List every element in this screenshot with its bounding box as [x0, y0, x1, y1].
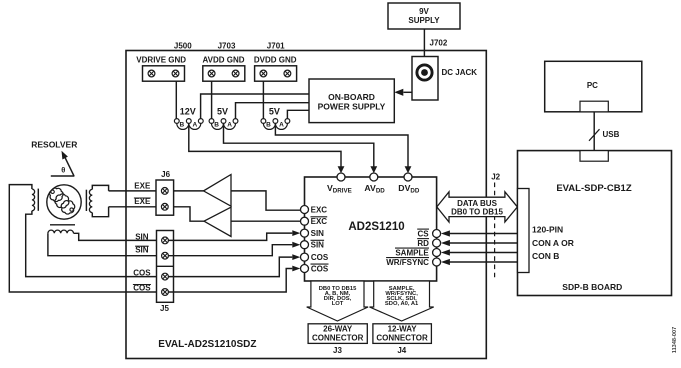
svg-text:J703: J703	[218, 42, 236, 51]
svg-text:A: A	[279, 121, 284, 128]
svg-text:SIN: SIN	[135, 232, 149, 241]
svg-text:EVAL-AD2S1210SDZ: EVAL-AD2S1210SDZ	[158, 339, 256, 350]
svg-text:J4: J4	[397, 346, 406, 355]
svg-text:POWER SUPPLY: POWER SUPPLY	[318, 101, 386, 111]
svg-text:CON A OR: CON A OR	[532, 238, 574, 248]
svg-text:RESOLVER: RESOLVER	[31, 140, 77, 150]
svg-text:A: A	[193, 121, 198, 128]
svg-text:EXC: EXC	[311, 205, 328, 214]
svg-text:θ: θ	[61, 166, 65, 175]
svg-text:COS: COS	[311, 264, 329, 273]
svg-text:AVDD GND: AVDD GND	[202, 56, 244, 65]
svg-text:LOT: LOT	[332, 301, 344, 307]
svg-text:ON-BOARD: ON-BOARD	[328, 92, 375, 102]
svg-text:COS: COS	[311, 253, 329, 262]
svg-text:B: B	[266, 122, 271, 129]
svg-text:SUPPLY: SUPPLY	[408, 16, 440, 25]
svg-text:DATA BUS: DATA BUS	[457, 199, 498, 208]
svg-text:J2: J2	[491, 173, 500, 182]
svg-text:SIN: SIN	[311, 229, 325, 238]
svg-text:CON B: CON B	[532, 251, 559, 261]
svg-text:J5: J5	[160, 304, 169, 313]
svg-text:USB: USB	[603, 130, 620, 139]
svg-text:SIN: SIN	[311, 241, 325, 250]
svg-text:EXE: EXE	[134, 182, 151, 191]
svg-text:CS: CS	[418, 229, 430, 238]
svg-text:B: B	[180, 122, 185, 129]
svg-text:RD: RD	[417, 239, 429, 248]
svg-text:J500: J500	[174, 42, 192, 51]
svg-text:PC: PC	[587, 81, 598, 90]
svg-text:B: B	[214, 122, 219, 129]
svg-text:WR/FSYNC: WR/FSYNC	[386, 258, 429, 267]
svg-text:SDP-B BOARD: SDP-B BOARD	[562, 282, 622, 292]
svg-text:VDRIVE GND: VDRIVE GND	[136, 56, 186, 65]
svg-text:11348-007: 11348-007	[672, 327, 678, 353]
svg-text:J6: J6	[161, 170, 170, 179]
svg-text:EVAL-SDP-CB1Z: EVAL-SDP-CB1Z	[556, 183, 631, 194]
svg-text:J3: J3	[333, 346, 342, 355]
svg-text:A: A	[227, 121, 232, 128]
svg-text:DB0 TO DB15: DB0 TO DB15	[451, 208, 503, 217]
svg-text:J702: J702	[430, 39, 448, 48]
svg-text:CONNECTOR: CONNECTOR	[312, 333, 364, 342]
svg-text:SDO, A0, A1: SDO, A0, A1	[385, 301, 419, 307]
svg-text:5V: 5V	[269, 107, 280, 117]
svg-text:DC JACK: DC JACK	[442, 68, 478, 77]
svg-text:SAMPLE: SAMPLE	[395, 248, 429, 257]
svg-text:120-PIN: 120-PIN	[532, 224, 563, 234]
svg-text:AD2S1210: AD2S1210	[348, 221, 404, 233]
svg-text:9V: 9V	[419, 7, 429, 16]
svg-text:J701: J701	[267, 42, 285, 51]
svg-text:DVDD GND: DVDD GND	[254, 56, 297, 65]
svg-text:5V: 5V	[217, 107, 228, 117]
svg-text:12V: 12V	[180, 107, 196, 117]
svg-text:CONNECTOR: CONNECTOR	[376, 333, 428, 342]
svg-text:EXC: EXC	[311, 217, 328, 226]
svg-text:COS: COS	[133, 269, 151, 278]
